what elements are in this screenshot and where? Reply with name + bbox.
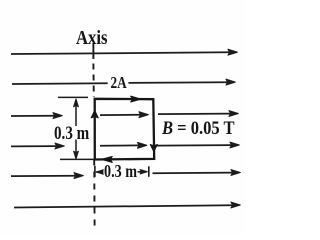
svg-text:2A: 2A bbox=[111, 73, 127, 92]
svg-text:0.3 m: 0.3 m bbox=[54, 123, 89, 144]
svg-text:0.3 m: 0.3 m bbox=[104, 161, 137, 181]
svg-text:Axis: Axis bbox=[76, 27, 108, 49]
svg-text:B = 0.05 T: B = 0.05 T bbox=[161, 119, 235, 139]
